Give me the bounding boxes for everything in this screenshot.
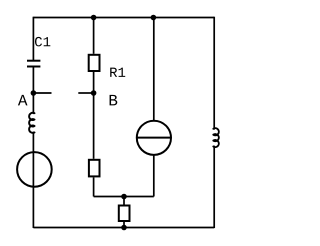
resistor bottom <box>119 206 130 222</box>
wire stub to node B <box>78 92 93 94</box>
wire current source branch upper <box>153 18 155 122</box>
wire junction to bottom resistor <box>123 197 125 205</box>
node B <box>91 90 97 96</box>
node junction on bottom rail <box>121 225 127 231</box>
wire capacitor to node A <box>32 67 34 93</box>
label R1 <box>110 68 125 77</box>
wire node B to lower resistor <box>93 93 95 159</box>
inductor right branch <box>213 128 219 147</box>
node junction top middle <box>91 15 97 21</box>
wire top rail <box>33 17 214 19</box>
label A <box>18 95 28 106</box>
current source chord <box>137 137 171 139</box>
node junction top right-center <box>151 15 157 21</box>
wire left branch top to capacitor <box>32 17 34 60</box>
wire bottom rail <box>33 227 214 229</box>
inductor left branch <box>29 113 34 133</box>
node junction above bottom resistor <box>121 194 127 200</box>
source circle left branch <box>17 152 52 187</box>
wire middle horizontal <box>94 196 154 198</box>
wire bottom resistor to bottom rail <box>123 222 125 228</box>
label B <box>110 95 118 106</box>
wire stub from node A <box>33 92 51 94</box>
wire R1 to node B <box>93 72 95 93</box>
capacitor C1 <box>27 61 40 67</box>
current source circle <box>137 121 171 155</box>
resistor middle lower <box>89 160 100 177</box>
wire right branch lower <box>213 146 215 228</box>
wire inductor through source to bottom <box>32 133 34 229</box>
wire right branch upper <box>213 17 215 129</box>
wire lower resistor to corner <box>93 178 95 197</box>
node A <box>31 90 37 96</box>
wire node A to inductor <box>32 93 34 113</box>
wire middle branch rail to R1 <box>93 18 95 54</box>
label C1 <box>35 37 50 47</box>
resistor R1 <box>89 55 100 71</box>
wire current source to corner <box>153 155 155 197</box>
